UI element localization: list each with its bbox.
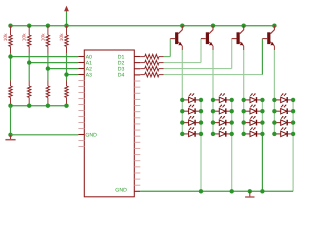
junction node A0 [8,54,12,58]
LED D41 [274,93,293,103]
junction anode 11 [180,98,184,102]
resistor R3 [40,26,49,53]
junction rail-R3 [46,24,50,28]
pin left unconnected 16 [78,146,84,148]
wire Q1 collector column [181,50,183,134]
pin right unconnected 11 [134,117,140,119]
junction cathode 14 [199,132,203,136]
pin A2 left [78,68,84,70]
wire A1 row [29,62,78,64]
pin D4 right [134,74,140,76]
resistor R7 [46,81,49,106]
wire cathode column 2 [231,100,233,191]
pin right unconnected 19 [134,166,140,168]
wire D1 to Q1 base [164,39,171,57]
junction rail-Q2 [211,24,215,28]
svg-text:10k: 10k [40,33,46,41]
LED D22 [213,105,232,115]
pin right unconnected 17 [134,154,140,156]
junction cathode 23 [230,120,234,124]
junction bus-R6 [27,104,31,108]
wire Q4 collector column [273,50,275,134]
junction rail-R1 [8,24,12,28]
junction bus-R8 [64,104,68,108]
wire column 4 mid [66,53,68,81]
junction cathode 33 [260,120,264,124]
pin right unconnected 18 [134,160,140,162]
pin right unconnected 20 [134,172,140,174]
svg-text:10k: 10k [3,33,9,41]
pin left unconnected 11 [78,116,84,118]
LED D21 [213,93,232,103]
junction bus-cathode [260,189,264,193]
LED D14 [182,127,201,137]
pin right unconnected 16 [134,147,140,149]
pin left unconnected 12 [78,122,84,124]
junction anode 34 [242,132,246,136]
resistor R6 [28,81,31,106]
junction anode 24 [211,132,215,136]
junction anode 42 [272,109,276,113]
LED D43 [274,116,293,126]
ground GND2 [245,191,254,197]
LED D34 [244,127,263,137]
pin D2 right [134,62,140,64]
junction cathode 22 [230,109,234,113]
junction anode 12 [180,109,184,113]
LED D13 [182,116,201,126]
wire gnd drop [10,106,12,135]
transistor Q4 [262,26,274,50]
pin A3 left [78,74,84,76]
junction anode 33 [242,120,246,124]
pin right unconnected 5 [134,80,140,82]
resistor R8 [65,81,68,106]
pin left unconnected 8 [78,98,84,100]
pin right unconnected 13 [134,129,140,131]
svg-text:GND: GND [115,188,127,194]
resistor R2 [22,26,31,53]
LED D32 [244,105,263,115]
pin right unconnected 7 [134,92,140,94]
pin D1 right [134,56,140,58]
junction cathode 11 [199,98,203,102]
junction bus-cathode [199,189,203,193]
junction rail-Q1 [180,24,184,28]
resistor R10 [140,60,163,65]
wire cathode column 1 [200,100,202,191]
svg-text:GND: GND [85,132,97,138]
op-amp U1 microcontroller body [84,50,134,197]
ground GND1 [5,135,15,140]
resistor R12 [140,72,163,77]
junction cathode 13 [199,120,203,124]
resistor R11 [140,66,163,71]
junction anode 13 [180,120,184,124]
pin left unconnected 15 [78,140,84,142]
wire column 2 mid [28,53,30,81]
junction anode 22 [211,109,215,113]
LED D24 [213,127,232,137]
junction anode 44 [272,132,276,136]
svg-text:A3: A3 [86,73,92,79]
junction cathode 21 [230,98,234,102]
wire GND bus bottom [140,190,293,192]
pin right unconnected 14 [134,135,140,137]
pin right unconnected 6 [134,86,140,88]
resistor R9 [140,54,163,59]
junction rail-R2 [27,24,31,28]
resistor R5 [9,81,12,106]
pin right unconnected 21 [134,178,140,180]
wire D4 to Q4 base [164,39,263,75]
junction anode 21 [211,98,215,102]
transistor Q1 [170,26,182,50]
pin right unconnected 9 [134,105,140,107]
LED D11 [182,93,201,103]
junction bus-cathode [230,189,234,193]
svg-text:10k: 10k [22,33,28,41]
junction bus-R5 [8,104,12,108]
LED D23 [213,116,232,126]
wire D3 to Q3 base [164,39,232,69]
pin right unconnected 12 [134,123,140,125]
pin right unconnected 10 [134,111,140,113]
wire Q3 collector column [243,50,245,134]
junction rail-Q3 [242,24,246,28]
wire A3 row [67,74,79,76]
LED D31 [244,93,263,103]
wire left bottom bus [11,105,67,107]
pin left unconnected 7 [78,92,84,94]
junction cathode 34 [260,132,264,136]
wire column 1 mid [10,53,12,81]
wire A2 row [48,68,79,70]
junction cathode 31 [260,98,264,102]
junction cathode 12 [199,109,203,113]
wire D2 to Q2 base [164,39,202,63]
junction gnd node [8,133,12,137]
pin D3 right [134,68,140,70]
junction rail-R4 [64,24,68,28]
LED D42 [274,105,293,115]
pin right unconnected 22 [134,184,140,186]
power supply symbol V+ [64,6,69,26]
junction anode 23 [211,120,215,124]
junction anode 32 [242,109,246,113]
LED D12 [182,105,201,115]
wire Q2 collector column [212,50,214,134]
junction rail-Q4 [272,24,276,28]
pin right unconnected 8 [134,98,140,100]
junction node A2 [46,66,50,70]
junction anode 41 [272,98,276,102]
junction cathode 43 [291,120,295,124]
pin GND right [134,190,140,192]
wire VCC top rail [11,25,275,27]
pin A0 left [78,56,84,58]
junction anode 43 [272,120,276,124]
junction cathode 42 [291,109,295,113]
svg-text:D4: D4 [118,73,125,79]
resistor R4 [59,26,68,53]
junction cathode 24 [230,132,234,136]
junction bus-gnd [248,189,252,193]
pin left unconnected 13 [78,128,84,130]
wire gnd to IC [11,134,79,136]
pin left unconnected 5 [78,80,84,82]
junction cathode 41 [291,98,295,102]
junction cathode 32 [260,109,264,113]
junction anode 14 [180,132,184,136]
pin left unconnected 9 [78,104,84,106]
svg-text:10k: 10k [59,33,65,41]
junction cathode 44 [291,132,295,136]
pin GND left [78,134,84,136]
transistor Q3 [232,26,244,50]
wire column 3 mid [47,53,49,81]
junction anode 31 [242,98,246,102]
pin right unconnected 15 [134,141,140,143]
junction bus-R7 [46,104,50,108]
wire A0 row [11,56,79,58]
pin left unconnected 6 [78,86,84,88]
wire cathode column 4 [292,100,294,191]
LED D33 [244,116,263,126]
pin A1 left [78,62,84,64]
junction node A3 [64,72,68,76]
junction node A1 [27,60,31,64]
LED D44 [274,127,293,137]
pin left unconnected 10 [78,110,84,112]
wire cathode column 3 [261,100,263,191]
transistor Q2 [201,26,213,50]
resistor R1 [3,26,12,53]
